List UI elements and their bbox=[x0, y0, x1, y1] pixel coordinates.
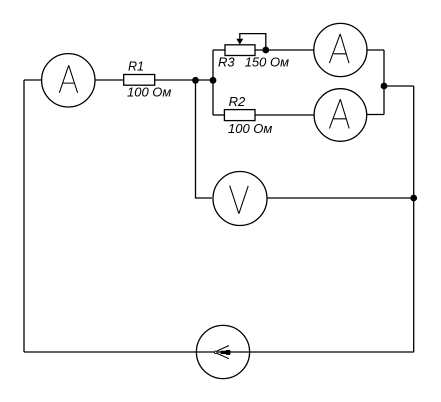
wire bbox=[366, 49, 384, 51]
resistor R2 bbox=[224, 94, 272, 136]
wire bbox=[267, 197, 413, 199]
wire bbox=[255, 114, 315, 116]
wire bbox=[23, 80, 25, 352]
node bbox=[381, 83, 388, 90]
resistor R1 bbox=[124, 60, 172, 100]
svg-text:R1: R1 bbox=[128, 60, 144, 74]
wire bbox=[213, 114, 224, 116]
wire bbox=[413, 86, 415, 352]
wire bbox=[24, 79, 42, 81]
wire bbox=[366, 114, 384, 116]
rheostat R3 bbox=[218, 34, 289, 70]
node bbox=[210, 77, 217, 84]
wire bbox=[255, 49, 315, 51]
wire bbox=[383, 50, 385, 115]
current source bbox=[196, 325, 249, 378]
ammeter A2 bbox=[314, 23, 367, 76]
svg-text:100 Ом: 100 Ом bbox=[228, 121, 272, 136]
svg-text:100 Ом: 100 Ом bbox=[127, 85, 171, 100]
svg-text:R3: R3 bbox=[218, 55, 235, 70]
voltmeter V bbox=[213, 172, 267, 226]
wire bbox=[24, 351, 414, 353]
wire bbox=[213, 49, 225, 51]
ammeter A1 bbox=[42, 54, 95, 107]
node bbox=[192, 77, 199, 84]
wire bbox=[196, 80, 213, 198]
wire bbox=[212, 50, 214, 115]
wire bbox=[155, 79, 213, 81]
svg-text:150 Ом: 150 Ом bbox=[245, 55, 289, 70]
node bbox=[262, 47, 269, 54]
svg-text:R2: R2 bbox=[229, 94, 246, 109]
ammeter A3 bbox=[314, 89, 367, 142]
node bbox=[410, 195, 417, 202]
wire bbox=[384, 85, 414, 87]
wire bbox=[95, 79, 124, 81]
